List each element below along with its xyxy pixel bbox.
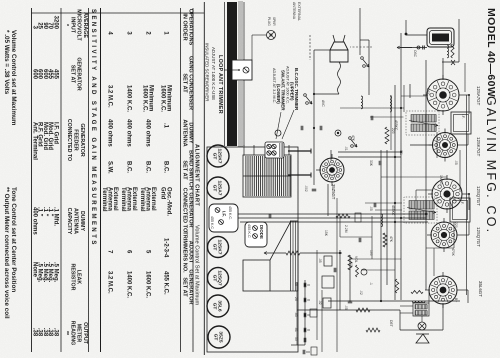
svg-text:CAPACITY: CAPACITY [66, 208, 72, 235]
svg-text:MODEL 40—60W: MODEL 40—60W [485, 8, 497, 97]
svg-text:PLUG: PLUG [267, 17, 271, 26]
svg-text:35L6GT: 35L6GT [478, 281, 483, 297]
svg-text:MICROVOLT: MICROVOLT [76, 9, 82, 41]
svg-text:100: 100 [369, 250, 373, 256]
svg-text:.01: .01 [294, 327, 298, 332]
svg-text:1600 K.C.: 1600 K.C. [142, 85, 148, 112]
svg-text:.01: .01 [344, 146, 348, 151]
svg-text:ANTENNA: ANTENNA [73, 208, 79, 234]
svg-text:30: 30 [294, 337, 298, 341]
svg-text:400 ohms: 400 ohms [31, 207, 37, 235]
svg-text:2.2M: 2.2M [344, 225, 348, 233]
svg-text:400 ohms: 400 ohms [145, 119, 151, 147]
svg-text:SET AT: SET AT [182, 160, 188, 180]
svg-text:ADJUST AT 3.2 M.C.: ADJUST AT 3.2 M.C. [272, 68, 276, 103]
svg-text:IN ORDER: IN ORDER [182, 13, 188, 40]
svg-text:CONNECTED TO: CONNECTED TO [182, 188, 188, 233]
svg-text:OUTPUT: OUTPUT [82, 322, 88, 345]
svg-text:LOOP ANT TRIMMER: LOOP ANT TRIMMER [217, 55, 223, 114]
svg-text:35Z5: 35Z5 [218, 331, 224, 342]
svg-text:1600 K.C.: 1600 K.C. [145, 271, 151, 298]
svg-text:OSC: OSC [426, 88, 430, 96]
svg-text:SPKR: SPKR [272, 17, 276, 26]
svg-text:47K: 47K [351, 135, 355, 142]
svg-text:Terminal: Terminal [101, 187, 107, 212]
svg-text:.1: .1 [369, 282, 373, 285]
svg-text:12SQ7GT: 12SQ7GT [476, 186, 481, 206]
svg-text:.1: .1 [163, 123, 169, 129]
svg-text:I.F.: I.F. [460, 200, 464, 205]
svg-text:DUMMY: DUMMY [79, 211, 85, 231]
svg-text:Tone Control set at Center Pos: Tone Control set at Center Position [10, 187, 17, 292]
svg-text:B+: B+ [454, 298, 458, 302]
svg-text:B.C.: B.C. [126, 161, 132, 173]
svg-text:Volume Control set at Maximum: Volume Control set at Maximum [10, 30, 17, 126]
svg-text:GALVIN MFG. CO.: GALVIN MFG. CO. [484, 96, 498, 234]
svg-text:20: 20 [294, 297, 298, 301]
svg-text:12SQ7: 12SQ7 [217, 270, 223, 286]
svg-text:GT: GT [212, 334, 218, 341]
svg-text:SET AT: SET AT [69, 65, 75, 84]
svg-text:1-2-3-4: 1-2-3-4 [163, 238, 169, 258]
svg-text:400 ohms: 400 ohms [107, 119, 113, 147]
svg-text:1400 K.C.: 1400 K.C. [126, 85, 132, 112]
svg-text:INSULATED SCREWDRIVER: INSULATED SCREWDRIVER [205, 43, 210, 101]
svg-text:RESISTOR: RESISTOR [69, 264, 75, 291]
svg-text:15K: 15K [324, 230, 328, 237]
svg-text:.05: .05 [369, 206, 373, 211]
svg-text:3.2 M.C.: 3.2 M.C. [107, 271, 113, 294]
svg-text:GT: GT [211, 275, 217, 282]
svg-text:LEAK: LEAK [76, 270, 82, 285]
svg-text:Ant. Terminal: Ant. Terminal [31, 122, 37, 160]
svg-text:GT: GT [211, 185, 217, 192]
svg-text:Grid: Grid [160, 187, 166, 200]
svg-text:B.C.: B.C. [145, 161, 151, 173]
svg-text:ANTENNA: ANTENNA [182, 119, 188, 146]
svg-text:.05: .05 [344, 305, 348, 310]
svg-text:455 K.C.: 455 K.C. [163, 271, 169, 295]
svg-text:455KC: 455KC [391, 205, 395, 216]
svg-text:SENSITIVITY AND STAGE GAIN MEA: SENSITIVITY AND STAGE GAIN MEASUREMENTS [90, 9, 96, 247]
svg-text:35Z5GT: 35Z5GT [331, 184, 336, 200]
svg-text:TRIMMERS NO.: TRIMMERS NO. [182, 231, 188, 273]
svg-text:I.F.: I.F. [222, 211, 227, 217]
svg-text:Terminal: Terminal [120, 187, 126, 212]
svg-text:.05: .05 [318, 258, 322, 263]
svg-text:3.2 M.C.: 3.2 M.C. [107, 85, 113, 108]
svg-text:12SA7: 12SA7 [217, 181, 223, 196]
svg-text:FEEDER: FEEDER [73, 129, 79, 151]
svg-text:* .05 Watts = .38 Volts: * .05 Watts = .38 Volts [3, 30, 10, 95]
svg-text:ANTENNA: ANTENNA [292, 2, 296, 20]
svg-text:33K: 33K [369, 160, 373, 167]
svg-text:12SQ7GT: 12SQ7GT [476, 227, 481, 247]
svg-text:Terminal: Terminal [139, 187, 145, 212]
svg-text:.38: .38 [31, 328, 37, 337]
svg-text:.01: .01 [349, 262, 353, 267]
svg-text:METER: METER [76, 324, 82, 343]
svg-text:I.F.: I.F. [461, 114, 465, 119]
svg-text:455 K.C: 455 K.C [247, 224, 251, 238]
svg-text:IF1: IF1 [399, 150, 403, 155]
svg-text:.02: .02 [359, 290, 363, 295]
svg-text:40: 40 [294, 282, 298, 286]
svg-text:AVC: AVC [321, 100, 325, 107]
svg-text:220: 220 [391, 128, 395, 134]
svg-text:SET AT: SET AT [182, 277, 188, 297]
svg-text:455 K.C: 455 K.C [210, 216, 214, 229]
svg-text:OSC: OSC [413, 50, 417, 58]
svg-text:DET: DET [389, 320, 393, 327]
svg-text:600: 600 [31, 69, 37, 80]
svg-text:GT: GT [211, 153, 217, 160]
svg-text:GT: GT [211, 303, 217, 310]
svg-text:READING: READING [69, 321, 75, 345]
svg-text:1MEG: 1MEG [439, 175, 443, 185]
svg-text:B.C.: B.C. [163, 161, 169, 173]
svg-text:.02: .02 [318, 300, 322, 305]
svg-text:47K: 47K [389, 236, 393, 243]
svg-text:.05: .05 [454, 160, 458, 165]
svg-text:455 K.C.: 455 K.C. [228, 206, 232, 220]
svg-text:.002: .002 [304, 185, 308, 192]
svg-text:GT: GT [211, 244, 217, 251]
svg-text:12SA7GT: 12SA7GT [476, 86, 481, 106]
svg-text:EXTERNAL: EXTERNAL [297, 2, 301, 21]
svg-text:470K: 470K [451, 248, 455, 257]
svg-text:None: None [31, 262, 37, 278]
svg-text:CONNECTED TO: CONNECTED TO [66, 119, 72, 161]
svg-text:400 ohms: 400 ohms [126, 119, 132, 147]
svg-text:ADJUST AT 1400 K.C-USE: ADJUST AT 1400 K.C-USE [211, 47, 216, 100]
svg-text:AVERAGE: AVERAGE [82, 12, 88, 38]
svg-text:S.W.: S.W. [107, 161, 113, 174]
svg-text:.05: .05 [294, 312, 298, 317]
svg-text:35L6: 35L6 [217, 300, 223, 311]
svg-text:220: 220 [454, 222, 458, 228]
svg-text:12SK7: 12SK7 [217, 149, 223, 164]
svg-text:12SK7GT: 12SK7GT [476, 137, 481, 157]
svg-text:VOL: VOL [354, 256, 358, 263]
svg-text:GENERATOR: GENERATOR [76, 57, 82, 91]
svg-text:INPUT: INPUT [69, 17, 75, 34]
svg-text:SET AT: SET AT [182, 73, 188, 93]
svg-text:GENERATOR: GENERATOR [79, 123, 85, 157]
svg-text:1600 K.C.: 1600 K.C. [160, 85, 166, 112]
svg-text:12SK7: 12SK7 [217, 240, 223, 255]
svg-text:1400 K.C.: 1400 K.C. [126, 271, 132, 298]
svg-text:** Output Meter connected acro: ** Output Meter connected across voice c… [3, 187, 10, 319]
svg-text:DIODE: DIODE [259, 225, 264, 239]
